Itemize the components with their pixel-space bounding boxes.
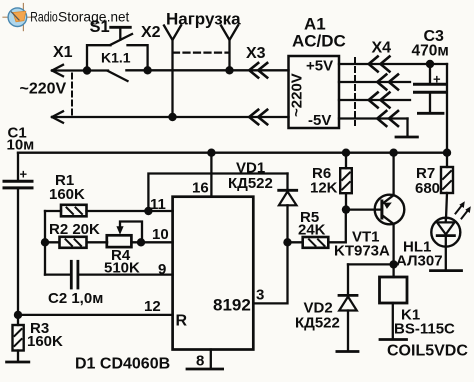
relay contact K1.1 blade: [108, 71, 128, 81]
resistor R6: [340, 153, 352, 210]
wire K1.1 left: [87, 69, 108, 71]
svg-text:10м: 10м: [7, 137, 35, 154]
svg-text:S1: S1: [90, 18, 110, 36]
potentiometer R4: [107, 222, 173, 248]
wire 220V bottom: [52, 116, 173, 118]
node junction left node R2: [41, 238, 49, 246]
ground common under R3: [7, 361, 29, 364]
relay K1 coil: [380, 264, 408, 339]
node junction VD1/R5/pin3: [283, 238, 291, 246]
resistor R2: [45, 237, 107, 248]
connector X1 pin 1 arrow: [52, 65, 63, 76]
svg-text:+5V: +5V: [306, 58, 333, 75]
node junction base: [342, 205, 350, 213]
terminal fork X2 pin 2: [221, 26, 238, 41]
node junction C1/R3/pin12: [14, 311, 22, 319]
svg-text:X3: X3: [246, 45, 266, 62]
svg-text:COIL5VDC: COIL5VDC: [387, 343, 468, 360]
svg-text:680: 680: [415, 180, 440, 197]
capacitor C3 polarized: [415, 64, 445, 112]
svg-text:КД522: КД522: [295, 315, 340, 332]
terminal fork X2 pin 1: [164, 26, 181, 41]
connector X4 chevrons wire2: [377, 75, 398, 90]
svg-text:AC/DC: AC/DC: [292, 32, 346, 51]
ground common under X4 wire4: [406, 119, 408, 137]
node junction S1 left: [83, 66, 91, 74]
wire left node riser: [44, 211, 46, 275]
resistor R5: [288, 210, 346, 248]
connector X1 dashed link: [71, 74, 73, 116]
connector X3 chevrons top wire: [249, 63, 267, 78]
wire riser to S1: [87, 45, 111, 70]
node junction R6 rail: [342, 149, 350, 157]
svg-text:16: 16: [192, 180, 209, 197]
resistor R7: [441, 167, 453, 219]
svg-text:+: +: [20, 167, 28, 182]
power module A1 box: [289, 56, 340, 128]
svg-text:~220V: ~220V: [20, 81, 67, 98]
svg-text:Нагрузка: Нагрузка: [166, 10, 241, 29]
svg-text:9: 9: [158, 261, 166, 278]
node junction rail right: [443, 149, 451, 157]
load dashed link: [173, 51, 229, 53]
svg-text:8: 8: [196, 353, 204, 370]
node junction R4 wiper: [137, 238, 145, 246]
wire A1 out2 stub: [339, 81, 410, 83]
switch S1 pushbutton: [111, 27, 133, 45]
svg-text:.net: .net: [107, 9, 130, 25]
svg-text:12: 12: [144, 298, 161, 315]
svg-text:R: R: [176, 313, 188, 330]
svg-text:160K: 160K: [49, 186, 85, 203]
node junction VT1 emitter rail: [389, 149, 397, 157]
logo RadioStorage.net: [3, 4, 129, 31]
node junction C3 top: [426, 60, 434, 68]
svg-text:11: 11: [150, 196, 166, 213]
wire pin 3: [253, 242, 287, 303]
svg-text:8192: 8192: [213, 296, 251, 315]
svg-text:+: +: [433, 72, 441, 87]
svg-text:Radio: Radio: [30, 9, 58, 25]
connector X4 dashed link: [354, 58, 356, 125]
wire bottom to A1: [173, 116, 289, 118]
svg-text:R2 20K: R2 20K: [49, 221, 100, 238]
diode VD1: [279, 174, 297, 243]
svg-text:X4: X4: [372, 40, 392, 57]
svg-text:470м: 470м: [412, 43, 449, 60]
wire pin 16: [210, 153, 212, 197]
connector X4 chevrons wire1: [369, 57, 390, 72]
wire base: [346, 208, 382, 210]
ground common under HL1: [431, 269, 462, 272]
svg-text:-5V: -5V: [308, 112, 331, 129]
svg-text:X2: X2: [141, 24, 161, 41]
wire pin 8: [210, 350, 212, 369]
ground common under C3: [418, 112, 443, 115]
wire A1 out1 +5V: [339, 63, 447, 65]
svg-text:X1: X1: [53, 44, 73, 61]
IC D1 CD4060 box: [173, 197, 254, 350]
wire fork2 stem: [228, 40, 230, 70]
node junction fork2/top wire: [225, 66, 233, 74]
node junction pin16 rail: [207, 149, 215, 157]
transistor VT1: [375, 153, 405, 265]
wire to pin 12: [18, 314, 173, 316]
svg-text:KT973A: KT973A: [334, 243, 390, 260]
LED arrows: [456, 201, 471, 218]
ground common under K1: [380, 338, 407, 341]
svg-text:КД522: КД522: [228, 175, 273, 192]
svg-text:АЛ307: АЛ307: [396, 253, 443, 270]
svg-text:3: 3: [256, 287, 264, 304]
connector X4 chevrons wire3: [369, 93, 390, 108]
diode VD2: [339, 264, 357, 351]
node junction R1/pin11: [144, 207, 152, 215]
connector X3 chevrons bottom wire: [249, 110, 267, 125]
svg-text:160K: 160K: [27, 333, 63, 350]
wire top to X3: [230, 69, 289, 71]
wire S1 right contact down: [128, 45, 148, 70]
node junction S1/K1.1 right: [143, 66, 151, 74]
wire A1 out3 stub: [339, 99, 410, 101]
svg-text:D1 CD4060B: D1 CD4060B: [75, 356, 170, 373]
svg-text:K1.1: K1.1: [101, 50, 131, 66]
ground common under pin 8: [187, 368, 223, 371]
wire X1 top to junction: [52, 69, 87, 71]
capacitor C2: [45, 261, 173, 288]
wire collector to VD2: [348, 263, 394, 265]
connector X1 pin 2 arrow: [52, 111, 63, 122]
wire fork1 stem to bottom wire: [171, 40, 173, 117]
resistor R1: [45, 205, 173, 217]
svg-text:12K: 12K: [310, 180, 338, 197]
svg-text:~220V: ~220V: [289, 73, 306, 117]
node junction collector: [389, 260, 397, 268]
svg-text:BS-115C: BS-115C: [394, 321, 455, 338]
wire +5V rail: [18, 152, 447, 154]
resistor R3: [13, 315, 24, 362]
wire K1.1 right: [126, 69, 229, 71]
connector X4 chevrons wire4: [377, 111, 398, 126]
ground common under VD2: [337, 350, 358, 353]
node junction fork1/bottom wire: [168, 113, 176, 121]
wire +5V right column: [446, 64, 448, 167]
LED HL1: [431, 218, 460, 271]
svg-text:C2 1,0м: C2 1,0м: [48, 290, 103, 307]
svg-text:VD1: VD1: [236, 160, 265, 177]
capacitor C1 polarized: [4, 153, 32, 315]
svg-text:10: 10: [152, 226, 169, 243]
wire A1 out4 common: [339, 117, 408, 119]
wire pin11 riser to VD1: [148, 174, 287, 212]
